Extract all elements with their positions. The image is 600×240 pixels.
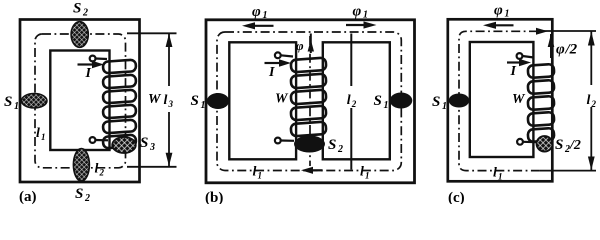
svg-text:3: 3 <box>149 142 155 153</box>
svg-text:2: 2 <box>591 99 597 109</box>
svg-text:1: 1 <box>263 10 268 21</box>
svg-text:S: S <box>374 93 382 109</box>
svg-text:/2: /2 <box>569 138 581 153</box>
svg-text:1: 1 <box>384 100 389 111</box>
svg-text:l: l <box>347 93 351 108</box>
svg-text:l: l <box>253 165 257 180</box>
svg-text:3: 3 <box>168 99 174 109</box>
svg-text:S: S <box>75 186 83 202</box>
svg-text:S: S <box>73 1 81 17</box>
svg-text:S: S <box>328 137 336 153</box>
svg-text:I: I <box>85 66 92 81</box>
svg-text:1: 1 <box>442 101 447 112</box>
svg-text:S: S <box>432 94 440 110</box>
svg-text:1: 1 <box>258 171 263 181</box>
svg-text:(c): (c) <box>448 190 465 204</box>
svg-text:φ: φ <box>296 38 304 53</box>
svg-text:1: 1 <box>201 100 206 111</box>
svg-text:l: l <box>95 162 99 177</box>
svg-text:l: l <box>360 165 364 180</box>
svg-text:S: S <box>191 93 199 109</box>
svg-text:l: l <box>164 93 168 108</box>
svg-text:1: 1 <box>498 172 503 182</box>
svg-text:2: 2 <box>82 8 88 19</box>
svg-text:W: W <box>148 92 162 107</box>
svg-text:1: 1 <box>14 101 19 112</box>
svg-text:W: W <box>275 92 289 107</box>
svg-text:I: I <box>510 64 517 79</box>
svg-text:W: W <box>512 92 526 107</box>
svg-text:2: 2 <box>337 144 343 155</box>
svg-text:1: 1 <box>365 171 370 181</box>
svg-text:1: 1 <box>505 9 510 20</box>
svg-text:φ: φ <box>494 3 503 19</box>
svg-text:1: 1 <box>363 10 368 21</box>
svg-text:φ: φ <box>353 4 362 20</box>
svg-text:S: S <box>555 137 563 153</box>
svg-text:S: S <box>4 94 12 110</box>
svg-text:(b): (b) <box>205 190 223 204</box>
svg-text:l: l <box>587 93 591 108</box>
svg-text:φ: φ <box>556 42 565 58</box>
svg-text:1: 1 <box>41 132 46 142</box>
svg-text:/2: /2 <box>565 42 578 58</box>
svg-text:2: 2 <box>99 168 105 178</box>
svg-text:l: l <box>36 126 40 141</box>
svg-text:l: l <box>493 166 497 181</box>
svg-text:2: 2 <box>351 99 357 109</box>
svg-text:(a): (a) <box>19 189 37 204</box>
svg-text:φ: φ <box>252 4 261 20</box>
svg-text:I: I <box>268 65 275 80</box>
svg-text:S: S <box>140 135 148 151</box>
svg-text:2: 2 <box>84 193 90 204</box>
